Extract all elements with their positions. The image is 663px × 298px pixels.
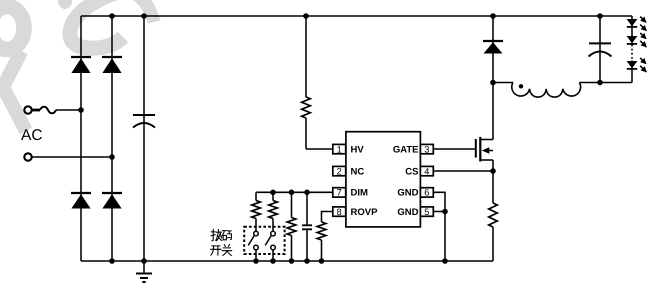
LED string column — [631, 16, 633, 83]
diode D5 freewheel — [483, 16, 503, 83]
ground — [136, 261, 152, 282]
resistor R3 dim — [269, 192, 278, 231]
svg-text:GATE: GATE — [393, 144, 419, 155]
svg-text:CS: CS — [405, 166, 418, 177]
wire GND to bottom rail — [444, 212, 446, 262]
diode D2 — [102, 57, 122, 73]
pin 3 box — [420, 144, 433, 154]
svg-text:3: 3 — [424, 144, 429, 154]
junction dot CS node — [490, 168, 496, 174]
svg-text:2: 2 — [337, 166, 342, 176]
diode D4 — [102, 193, 122, 209]
LED D8 — [627, 61, 638, 69]
L1 phasing dot — [519, 84, 523, 88]
LED D7 — [627, 36, 638, 44]
pin 7 box — [333, 188, 346, 198]
wire GATE pin3 to Q1 — [433, 148, 475, 150]
wire left bridge column D1/D3 — [80, 16, 82, 261]
svg-text:5: 5 — [424, 207, 429, 217]
svg-text:HV: HV — [351, 144, 365, 155]
svg-text:6: 6 — [424, 188, 429, 198]
svg-text:ROVP: ROVP — [351, 207, 379, 218]
junction dot fuse node — [78, 107, 84, 113]
wire bottom rail — [81, 260, 493, 262]
node AC line 2 — [24, 153, 31, 160]
junction dot C3 top of output rail — [597, 80, 603, 86]
LED D6 arrows — [640, 17, 646, 31]
wire fuse to bridge — [56, 109, 81, 111]
svg-text:1: 1 — [337, 144, 342, 154]
wire GND pin6 — [433, 192, 445, 211]
svg-text:DIM: DIM — [351, 188, 369, 199]
svg-text:GND: GND — [397, 188, 418, 199]
junction dot switch node — [490, 80, 496, 86]
resistor R6 CS sense — [489, 171, 498, 261]
junction dots top rail — [109, 13, 603, 19]
LED D8 arrows — [640, 58, 646, 72]
node AC line 1 — [24, 106, 31, 113]
svg-text:8: 8 — [337, 207, 342, 217]
capacitor C1 — [133, 16, 155, 261]
switch S1a — [248, 231, 258, 261]
IC U1 body — [346, 132, 421, 227]
svg-text:NC: NC — [351, 166, 365, 177]
svg-text:7: 7 — [337, 188, 342, 198]
fuse F1 — [40, 107, 56, 114]
svg-text:GND: GND — [397, 207, 418, 218]
wire AC1 to fuse — [32, 109, 40, 112]
resistor R2 dim — [252, 192, 261, 231]
junction dot AC2 node — [109, 154, 115, 160]
pin 6 box — [420, 188, 433, 198]
capacitor C2 — [302, 192, 312, 261]
svg-text:AC: AC — [21, 127, 43, 144]
pin 8 box — [333, 207, 346, 217]
pin 5 box — [420, 207, 433, 217]
junction dots bottom rail — [109, 258, 448, 264]
wire top rail — [81, 15, 632, 17]
junction dot GND node — [442, 209, 448, 215]
wire GND pin5 — [433, 211, 445, 213]
inductor L1 — [493, 83, 632, 98]
capacitor C3 output — [589, 16, 612, 83]
junction dots DIM bus — [270, 190, 310, 196]
svg-text:4: 4 — [424, 166, 429, 176]
transistor Q1 MOSFET — [476, 83, 493, 172]
resistor R4 dim shunt — [287, 192, 296, 261]
diode D3 — [71, 193, 91, 209]
resistor R5 ROVP — [317, 212, 333, 262]
pin 4 box — [420, 166, 433, 176]
DIP switch dashed box — [244, 227, 284, 254]
LED D6 — [627, 19, 638, 27]
pin 1 box — [333, 144, 346, 154]
switch S1b — [265, 231, 275, 261]
LED D7 arrows — [640, 33, 646, 47]
pin 2 box — [333, 166, 346, 176]
diode D1 — [71, 57, 91, 73]
wire AC2 to bridge — [32, 156, 112, 158]
wire CS pin4 to Q1 source — [433, 170, 493, 172]
wire DIM bus — [256, 191, 333, 193]
wire right bridge column D2/D4 — [111, 16, 113, 261]
label 拨码开关 — [211, 229, 232, 255]
resistor R1 HV startup — [302, 16, 333, 149]
